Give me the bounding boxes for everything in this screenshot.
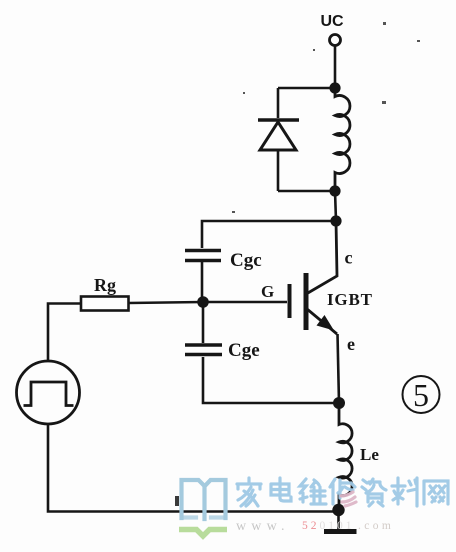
wire Cge bottom to emitter node — [203, 357, 339, 403]
pulse source G1 — [17, 361, 80, 424]
diode VD — [258, 88, 299, 191]
svg-text:www.: www. — [236, 519, 290, 534]
wire node A to diode top — [278, 87, 335, 90]
char 网 — [424, 481, 448, 504]
node F ground junction — [332, 504, 344, 516]
inductor L1 — [335, 93, 350, 191]
IGBT emitter lead with arrow — [307, 309, 337, 334]
char 修 — [330, 479, 356, 506]
terminal UC — [330, 35, 341, 46]
wire Cgc bottom lead to gate node — [201, 262, 204, 302]
char 资 — [362, 479, 386, 506]
watermark chinese text 家电维修资料网 — [237, 478, 448, 506]
svg-text:IGBT: IGBT — [327, 290, 373, 309]
wire gate node to IGBT gate bar — [203, 301, 287, 304]
wire diode bottom to node B — [278, 190, 335, 193]
node D gate — [197, 296, 209, 308]
svg-text:Cge: Cge — [228, 340, 260, 361]
svg-text:5: 5 — [413, 377, 429, 413]
char 电 — [271, 478, 291, 501]
watermark logo ribbon — [179, 530, 227, 537]
wire UC terminal to node A — [334, 46, 337, 88]
svg-text:Le: Le — [360, 445, 379, 464]
char 维 — [300, 479, 326, 504]
IGBT collector lead — [307, 221, 337, 294]
inductor Le — [339, 403, 352, 510]
pulse waveform symbol — [24, 382, 74, 406]
wire resistor to gate node — [129, 302, 204, 303]
wire pulse source to resistor — [48, 304, 81, 362]
wire node B to node C — [335, 191, 336, 221]
node E emitter junction — [333, 397, 345, 409]
wire emitter down to node E — [338, 334, 340, 403]
svg-text:G: G — [261, 282, 274, 301]
IGBT Q1 body bar — [304, 273, 309, 330]
capacitor Cge — [185, 345, 222, 355]
IGBT Q1 gate bar — [288, 284, 292, 318]
char 料 — [392, 478, 417, 506]
node B — [329, 185, 340, 196]
ground — [337, 510, 340, 530]
capacitor Cgc — [185, 251, 221, 261]
svg-text:.com: .com — [358, 520, 394, 532]
wire node C to Cgc top lead — [202, 221, 336, 248]
resistor Rg — [81, 297, 129, 311]
svg-text:e: e — [347, 334, 355, 354]
figure number 5 — [403, 376, 440, 413]
svg-text:c: c — [345, 248, 353, 268]
scan specks — [175, 22, 420, 506]
svg-text:UC: UC — [320, 13, 344, 30]
node A — [329, 82, 340, 93]
node C — [330, 215, 341, 226]
svg-text:Cgc: Cgc — [230, 250, 262, 271]
watermark logo book icon — [182, 480, 226, 519]
watermark url www.520101.com — [236, 519, 394, 534]
wire source bottom to ground run — [48, 424, 338, 512]
svg-text:Rg: Rg — [94, 275, 116, 295]
wire gate node to Cge top lead — [202, 302, 205, 343]
svg-text:520101: 520101 — [302, 520, 355, 532]
char 家 — [237, 478, 261, 506]
